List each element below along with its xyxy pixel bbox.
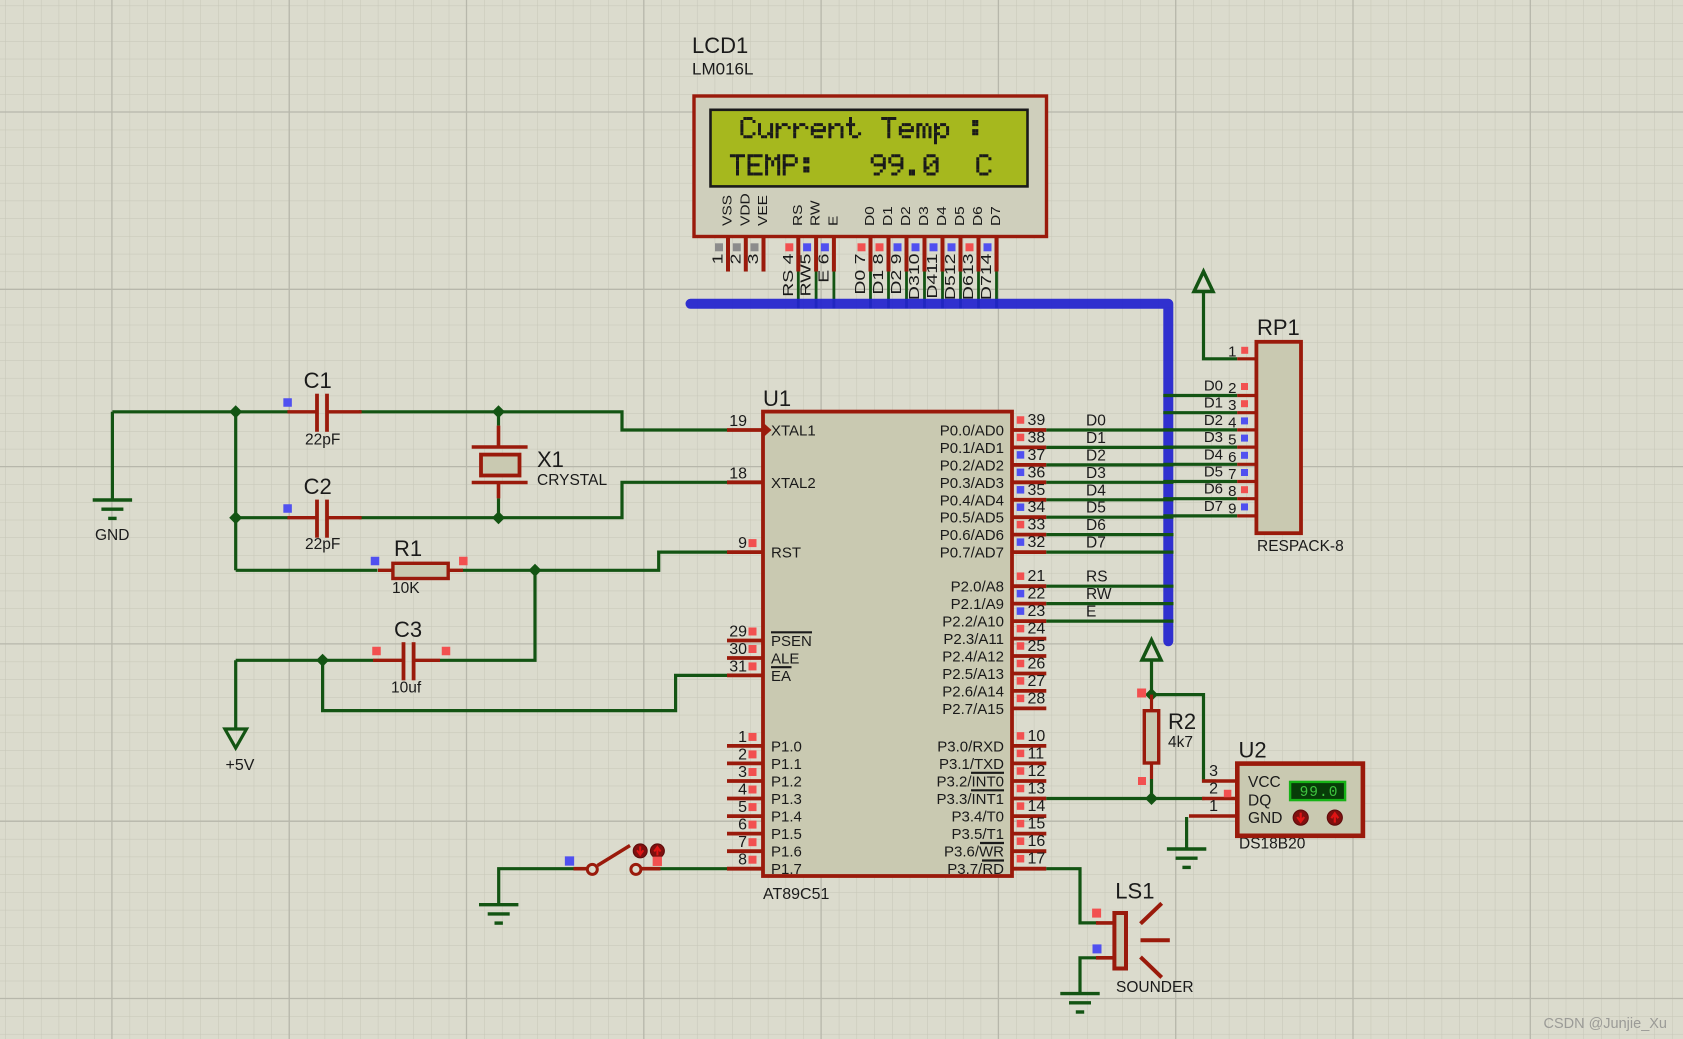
junction node (X1 top) [492, 405, 505, 418]
svg-text:2: 2 [1228, 380, 1236, 397]
svg-text:P2.3/A11: P2.3/A11 [943, 631, 1004, 648]
svg-text:32: 32 [1028, 534, 1046, 551]
RP1 pin 3 D1 [1204, 395, 1257, 415]
svg-text:8: 8 [738, 852, 747, 869]
svg-text:+5V: +5V [226, 757, 255, 774]
svg-text:AT89C51: AT89C51 [763, 886, 830, 903]
svg-text:2: 2 [738, 746, 747, 763]
svg-text:19: 19 [729, 413, 747, 430]
U1 pin 37 P0.2/AD2 [940, 447, 1047, 475]
svg-text:D2 9: D2 9 [887, 254, 904, 295]
svg-text:P3.6/WR: P3.6/WR [944, 844, 1004, 861]
LCD screen text line1 'Current Temp :' [740, 117, 978, 144]
svg-text:99.0: 99.0 [1300, 785, 1339, 801]
svg-text:P2.1/A9: P2.1/A9 [951, 596, 1004, 613]
svg-text:35: 35 [1028, 482, 1046, 499]
RP1 pin 7 D5 [1204, 464, 1257, 484]
svg-text:XTAL1: XTAL1 [771, 423, 816, 440]
svg-text:E: E [827, 216, 841, 226]
U1 pin 35 P0.4/AD4 [940, 482, 1047, 510]
power arrow (RP1 pin 1) [1194, 272, 1237, 359]
RP1 pin 5 D3 [1204, 429, 1257, 449]
U1 pin 8 P1.7 [727, 852, 802, 879]
wire U2 GND to ground [1185, 817, 1188, 849]
svg-text:P1.5: P1.5 [771, 826, 802, 843]
svg-text:25: 25 [1028, 638, 1046, 655]
svg-text:7: 7 [738, 834, 747, 851]
LCD pin RS 4 (RS) [779, 204, 805, 308]
wire RS (U1 P2.0 to bus) [1046, 569, 1173, 587]
svg-text:VSS: VSS [721, 195, 735, 226]
svg-text:1: 1 [1228, 344, 1236, 361]
U1 pin 38 P0.1/AD1 [940, 429, 1047, 457]
svg-text:P3.5/T1: P3.5/T1 [951, 826, 1004, 843]
wire D5 (U1 P0.5 to bus) [1046, 500, 1173, 518]
svg-text:VCC: VCC [1248, 774, 1281, 791]
svg-text:VDD: VDD [739, 193, 753, 226]
wire RW (U1 P2.1 to bus) [1046, 586, 1173, 604]
U1 pin 9 RST [727, 535, 801, 562]
svg-text:D2: D2 [899, 206, 913, 226]
U1 pin 33 P0.6/AD6 [940, 517, 1047, 545]
svg-text:D1: D1 [881, 206, 895, 226]
svg-text:RESPACK-8: RESPACK-8 [1257, 538, 1344, 555]
svg-text:R2: R2 [1168, 709, 1196, 734]
wire E (U1 P2.2 to bus) [1046, 604, 1173, 622]
U1 pin 27 P2.6/A14 [942, 673, 1046, 701]
svg-text:D0: D0 [1204, 378, 1223, 395]
svg-text:12: 12 [1028, 763, 1046, 780]
U1 pin 17 P3.7/RD [947, 851, 1046, 879]
svg-text:P0.1/AD1: P0.1/AD1 [940, 440, 1004, 457]
svg-text:11: 11 [1028, 745, 1045, 762]
svg-text:P2.5/A13: P2.5/A13 [942, 666, 1004, 683]
switch SW (on P1.7) [565, 846, 661, 875]
svg-text:PSEN: PSEN [771, 633, 812, 650]
svg-text:24: 24 [1028, 621, 1046, 638]
svg-text:P3.7/RD: P3.7/RD [947, 861, 1004, 878]
svg-text:LS1: LS1 [1115, 879, 1154, 904]
capacitor C2 [283, 474, 361, 553]
U1 pin 13 P3.3/INT1 [936, 781, 1046, 809]
wire bus to RP1 pin 5 (D3) [1163, 446, 1237, 449]
svg-text:EA: EA [771, 668, 791, 685]
U1 pin 28 P2.7/A15 [942, 690, 1046, 718]
U1 pin 4 P1.3 [727, 782, 802, 809]
U1 pin 32 P0.7/AD7 [940, 534, 1047, 562]
svg-text:6: 6 [1228, 449, 1236, 466]
svg-text:P2.4/A12: P2.4/A12 [942, 649, 1004, 666]
svg-text:D714: D714 [977, 253, 994, 300]
svg-text:D411: D411 [923, 254, 940, 299]
LCD pin D613 (D6) [959, 206, 985, 308]
svg-text:17: 17 [1028, 851, 1046, 868]
svg-text:P1.3: P1.3 [771, 791, 802, 808]
svg-text:D4: D4 [1086, 482, 1106, 499]
svg-text:RW: RW [809, 200, 823, 226]
svg-text:D6: D6 [1086, 517, 1106, 534]
svg-text:RS 4: RS 4 [779, 253, 796, 297]
svg-text:C2: C2 [304, 474, 332, 499]
U2 temperature display '99.0' [1290, 782, 1345, 801]
svg-text:14: 14 [1028, 798, 1046, 815]
U1 pin 6 P1.5 [727, 817, 802, 844]
RP1 labels [1257, 315, 1344, 555]
svg-text:P3.4/T0: P3.4/T0 [951, 809, 1004, 826]
ground (LS1) [1060, 994, 1099, 1012]
U1 pin 21 P2.0/A8 [951, 568, 1047, 596]
wire D7 (U1 P0.7 to bus) [1046, 535, 1173, 553]
svg-text:P2.2/A10: P2.2/A10 [942, 614, 1004, 631]
svg-text:P0.2/AD2: P0.2/AD2 [940, 457, 1004, 474]
svg-text:10uf: 10uf [391, 680, 422, 697]
sounder LS1 [1092, 879, 1193, 997]
svg-text:33: 33 [1028, 517, 1046, 534]
U2 up/down buttons [1293, 810, 1342, 825]
wire U1.17 P3.7 to LS1 [1046, 869, 1098, 923]
resistor pack RP1 body [1256, 342, 1301, 533]
svg-text:9: 9 [1228, 500, 1236, 517]
wire C1-C2 vertical link [234, 412, 237, 571]
U1 pin 36 P0.3/AD3 [940, 464, 1047, 492]
svg-text:P2.6/A14: P2.6/A14 [942, 683, 1004, 700]
svg-text:D310: D310 [905, 254, 922, 301]
svg-text:RS: RS [1086, 569, 1108, 586]
wire bus to RP1 pin 9 (D7) [1163, 514, 1237, 517]
LCD pin D714 (D7) [977, 206, 1003, 308]
svg-text:D7: D7 [989, 206, 1003, 226]
RP1 pin 1 [1228, 344, 1256, 361]
wire D0 (U1 P0.0 to bus) [1046, 413, 1173, 431]
LCD pin D2 9 (D2) [887, 206, 913, 308]
svg-text:P1.1: P1.1 [771, 756, 802, 773]
wire bus to RP1 pin 2 (D0) [1163, 394, 1237, 397]
wire bus to RP1 pin 4 (D2) [1163, 428, 1237, 431]
U1 pin 7 P1.6 [727, 834, 802, 861]
sensor U2 DS18B20 body [1237, 764, 1363, 836]
junction node (R2 bottom / DQ net) [1145, 792, 1158, 805]
svg-text:D613: D613 [959, 254, 976, 301]
svg-text:P1.2: P1.2 [771, 774, 802, 791]
U2 pin 1 GND [1189, 798, 1282, 827]
watermark [1543, 1016, 1667, 1032]
ground (left) [93, 500, 132, 544]
svg-text:D0 7: D0 7 [851, 254, 868, 295]
LCD pin RW5 (RW) [797, 200, 823, 309]
svg-text:4: 4 [1228, 414, 1236, 431]
svg-text:RW: RW [1086, 586, 1112, 603]
svg-text:22pF: 22pF [305, 536, 340, 553]
wire bus to RP1 pin 3 (D1) [1163, 411, 1237, 414]
svg-text:22: 22 [1028, 586, 1046, 603]
svg-text:1: 1 [1209, 798, 1218, 815]
U1 pin 22 P2.1/A9 [951, 586, 1047, 614]
power +5V symbol [225, 729, 255, 774]
svg-text:P1.4: P1.4 [771, 809, 802, 826]
svg-text:RP1: RP1 [1257, 315, 1300, 340]
svg-text:10K: 10K [392, 580, 420, 597]
LCD pin 1 (VSS) [709, 195, 735, 271]
svg-text:GND: GND [95, 527, 129, 544]
U2 pin 3 VCC [1202, 763, 1281, 791]
wire bus to RP1 pin 6 (D4) [1163, 463, 1237, 466]
RP1 pin 9 D7 [1204, 498, 1257, 518]
svg-text:39: 39 [1028, 412, 1046, 429]
U1 pin 12 P3.2/INT0 [936, 763, 1046, 791]
svg-text:RS: RS [791, 204, 805, 226]
svg-text:29: 29 [729, 624, 747, 641]
LCD pin D0 7 (D0) [851, 206, 877, 308]
LCD LCD1 body [694, 96, 1047, 237]
svg-text:D1 8: D1 8 [869, 254, 886, 295]
svg-text:D4: D4 [1204, 446, 1223, 463]
U1 pin 34 P0.5/AD5 [940, 499, 1047, 527]
svg-text:D2: D2 [1086, 447, 1106, 464]
svg-text:16: 16 [1028, 833, 1046, 850]
svg-text:ALE: ALE [771, 651, 799, 668]
svg-text:D3: D3 [917, 206, 931, 226]
svg-text:13: 13 [1028, 781, 1046, 798]
junction node (C3 left / EA branch) [316, 654, 329, 667]
svg-text:36: 36 [1028, 464, 1046, 481]
svg-text:D0: D0 [1086, 413, 1106, 430]
svg-text:LM016L: LM016L [692, 60, 753, 79]
U1 pin 5 P1.4 [727, 799, 802, 826]
svg-text:D0: D0 [863, 206, 877, 226]
svg-text:D6: D6 [971, 206, 985, 226]
wire D4 (U1 P0.4 to bus) [1046, 482, 1173, 500]
svg-text:RW5: RW5 [797, 254, 814, 297]
svg-text:P3.0/RXD: P3.0/RXD [937, 738, 1004, 755]
wire LS1 bottom to ground [1080, 958, 1098, 994]
U1 pin 29 PSEN [727, 624, 812, 651]
wire D3 (U1 P0.3 to bus) [1046, 465, 1173, 483]
svg-text:D3: D3 [1204, 429, 1223, 446]
svg-text:D2: D2 [1204, 412, 1223, 429]
svg-text:28: 28 [1028, 690, 1046, 707]
svg-text:D3: D3 [1086, 465, 1106, 482]
svg-text:C1: C1 [304, 368, 332, 393]
RP1 pin 2 D0 [1204, 378, 1257, 398]
power arrow (R2 top) [1142, 640, 1161, 695]
U1 pin 2 P1.1 [727, 746, 802, 773]
RP1 pin 6 D4 [1204, 446, 1257, 466]
junction node (C1 left / GND) [229, 405, 242, 418]
svg-text:D6: D6 [1204, 481, 1223, 498]
svg-text:4k7: 4k7 [1168, 734, 1193, 751]
U1 pin 26 P2.5/A13 [942, 656, 1046, 684]
U1 pin 18 XTAL2 [727, 465, 816, 492]
wire GND stem (left) [111, 412, 114, 500]
wire XTAL1 net (C1 - X1 top - U1.19) [112, 412, 727, 430]
U2 labels [1239, 738, 1306, 853]
svg-text:C3: C3 [394, 617, 422, 642]
svg-text:1: 1 [738, 729, 747, 746]
svg-text:P0.3/AD3: P0.3/AD3 [940, 475, 1004, 492]
svg-text:SOUNDER: SOUNDER [1116, 979, 1194, 996]
svg-text:P0.7/AD7: P0.7/AD7 [940, 545, 1004, 562]
svg-text:23: 23 [1028, 603, 1046, 620]
U1 pin 10 P3.0/RXD [937, 728, 1046, 756]
svg-text:18: 18 [729, 465, 747, 482]
U1 pin 24 P2.3/A11 [943, 621, 1046, 649]
svg-text:P1.7: P1.7 [771, 861, 802, 878]
U1 pin 14 P3.4/T0 [951, 798, 1046, 826]
U1 pin 1 P1.0 [727, 729, 802, 756]
svg-text:34: 34 [1028, 499, 1046, 516]
U1 pin 16 P3.6/WR [944, 833, 1046, 861]
svg-text:P2.7/A15: P2.7/A15 [942, 701, 1004, 718]
junction node (R2 top) [1145, 688, 1158, 701]
LCD pin E 6 (E) [815, 216, 841, 309]
wire XTAL2 net (C2 - X1 bottom - U1.18) [236, 482, 727, 517]
svg-text:1: 1 [709, 254, 726, 265]
svg-text:38: 38 [1028, 429, 1046, 446]
resistor R1 [371, 536, 468, 597]
capacitor C3 [372, 617, 450, 697]
junction node (X1 bottom) [492, 511, 505, 524]
U1 pin 11 P3.1/TXD [939, 745, 1046, 773]
U1 label [763, 386, 830, 903]
svg-text:37: 37 [1028, 447, 1046, 464]
svg-text:15: 15 [1028, 816, 1046, 833]
svg-text:P0.6/AD6: P0.6/AD6 [940, 527, 1004, 544]
U1 pin 19 XTAL1 [727, 413, 816, 440]
switch toggle buttons [633, 844, 664, 866]
svg-text:10: 10 [1028, 728, 1046, 745]
svg-text:6: 6 [738, 817, 747, 834]
svg-text:D4: D4 [935, 206, 949, 226]
wire DQ net (U1.13 - R2 - U2 DQ) [1046, 797, 1204, 800]
svg-text:E: E [1086, 604, 1096, 621]
svg-text:CSDN @Junjie_Xu: CSDN @Junjie_Xu [1543, 1016, 1667, 1032]
LCD pin D310 (D3) [905, 206, 931, 308]
junction node (R1 right / C3 feedback) [529, 564, 542, 577]
wire RST net (R1 - U1.9) [236, 552, 727, 570]
svg-text:P0.0/AD0: P0.0/AD0 [940, 423, 1004, 440]
svg-text:D5: D5 [953, 206, 967, 226]
svg-text:3: 3 [738, 764, 747, 781]
svg-text:2: 2 [727, 254, 744, 265]
ground (U2) [1167, 849, 1206, 867]
LCD LCD1 screen [711, 110, 1028, 187]
svg-text:GND: GND [1248, 810, 1282, 827]
svg-text:XTAL2: XTAL2 [771, 475, 816, 492]
svg-text:U2: U2 [1239, 738, 1267, 763]
wire D1 (U1 P0.1 to bus) [1046, 430, 1173, 448]
svg-text:D7: D7 [1086, 535, 1106, 552]
svg-text:8: 8 [1228, 483, 1236, 500]
svg-text:X1: X1 [537, 447, 564, 472]
svg-text:4: 4 [738, 782, 747, 799]
LCD pin D1 8 (D1) [869, 206, 895, 308]
svg-text:P3.2/INT0: P3.2/INT0 [936, 774, 1004, 791]
LCD pin D411 (D4) [923, 206, 949, 308]
svg-text:30: 30 [729, 641, 747, 658]
svg-text:P2.0/A8: P2.0/A8 [951, 579, 1004, 596]
svg-text:P0.4/AD4: P0.4/AD4 [940, 492, 1004, 509]
RP1 pin 8 D6 [1204, 481, 1257, 501]
svg-text:RST: RST [771, 545, 801, 562]
LCD pin 3 (VEE) [744, 195, 770, 271]
svg-text:P3.3/INT1: P3.3/INT1 [936, 791, 1004, 808]
svg-text:21: 21 [1028, 568, 1046, 585]
svg-text:P3.1/TXD: P3.1/TXD [939, 756, 1004, 773]
svg-text:D5: D5 [1204, 464, 1223, 481]
LCD pin 2 (VDD) [727, 193, 753, 271]
svg-text:D5: D5 [1086, 500, 1106, 517]
svg-text:DQ: DQ [1248, 793, 1271, 810]
svg-text:CRYSTAL: CRYSTAL [537, 472, 607, 489]
capacitor C1 [283, 368, 361, 449]
wire bus to RP1 pin 8 (D6) [1163, 497, 1237, 500]
U1 pin 15 P3.5/T1 [951, 816, 1046, 844]
svg-text:5: 5 [1228, 432, 1236, 449]
svg-text:LCD1: LCD1 [692, 33, 748, 58]
LCD LCD1 labels [692, 33, 753, 79]
svg-text:7: 7 [1228, 466, 1236, 483]
resistor R2 [1137, 689, 1196, 799]
svg-text:P1.6: P1.6 [771, 844, 802, 861]
U1 pin 30 ALE [727, 641, 799, 668]
wire EA net (C3 branch - U1.31) [323, 660, 727, 710]
wire switch net (ground - switch - U1.8 P1.7) [499, 869, 727, 905]
svg-text:2: 2 [1209, 781, 1218, 798]
wire R2 top to U2 VCC [1152, 695, 1217, 781]
svg-text:3: 3 [1228, 397, 1236, 414]
svg-text:26: 26 [1028, 656, 1046, 673]
ground (switch) [479, 905, 518, 923]
svg-text:P1.0: P1.0 [771, 738, 802, 755]
svg-text:R1: R1 [394, 536, 422, 561]
svg-text:22pF: 22pF [305, 432, 340, 449]
svg-text:D1: D1 [1086, 430, 1106, 447]
bus wire (LCD data bus) [691, 304, 1169, 642]
svg-text:27: 27 [1028, 673, 1046, 690]
svg-text:D512: D512 [941, 254, 958, 301]
wire C3 net (+5V - C3 - R1 right) [236, 570, 535, 729]
U1 pin 39 P0.0/AD0 [940, 412, 1047, 440]
U1 pin 25 P2.4/A12 [942, 638, 1046, 666]
svg-text:D7: D7 [1204, 498, 1223, 515]
wire bus to RP1 pin 7 (D5) [1163, 480, 1237, 483]
svg-text:D1: D1 [1204, 395, 1223, 412]
svg-text:3: 3 [1209, 763, 1218, 780]
U1 pin 23 P2.2/A10 [942, 603, 1046, 631]
U1 pin 31 EA [727, 658, 792, 685]
svg-text:3: 3 [744, 254, 761, 265]
U2 pin 2 DQ [1202, 781, 1271, 810]
svg-text:P0.5/AD5: P0.5/AD5 [940, 510, 1004, 527]
svg-text:31: 31 [729, 658, 747, 675]
svg-text:U1: U1 [763, 386, 791, 411]
crystal X1 [472, 412, 608, 518]
junction node (C2 left) [229, 511, 242, 524]
LCD pin D512 (D5) [941, 206, 967, 308]
IC U1 AT89C51 body [763, 412, 1012, 876]
LCD screen text line2 'TEMP: 99.0 C' [730, 154, 992, 175]
wire D2 (U1 P0.2 to bus) [1046, 447, 1173, 465]
svg-text:5: 5 [738, 799, 747, 816]
RP1 pin 4 D2 [1204, 412, 1257, 432]
svg-text:E 6: E 6 [815, 254, 832, 283]
U1 pin 3 P1.2 [727, 764, 802, 791]
svg-text:9: 9 [738, 535, 747, 552]
wire D6 (U1 P0.6 to bus) [1046, 517, 1173, 535]
svg-text:VEE: VEE [756, 195, 770, 226]
